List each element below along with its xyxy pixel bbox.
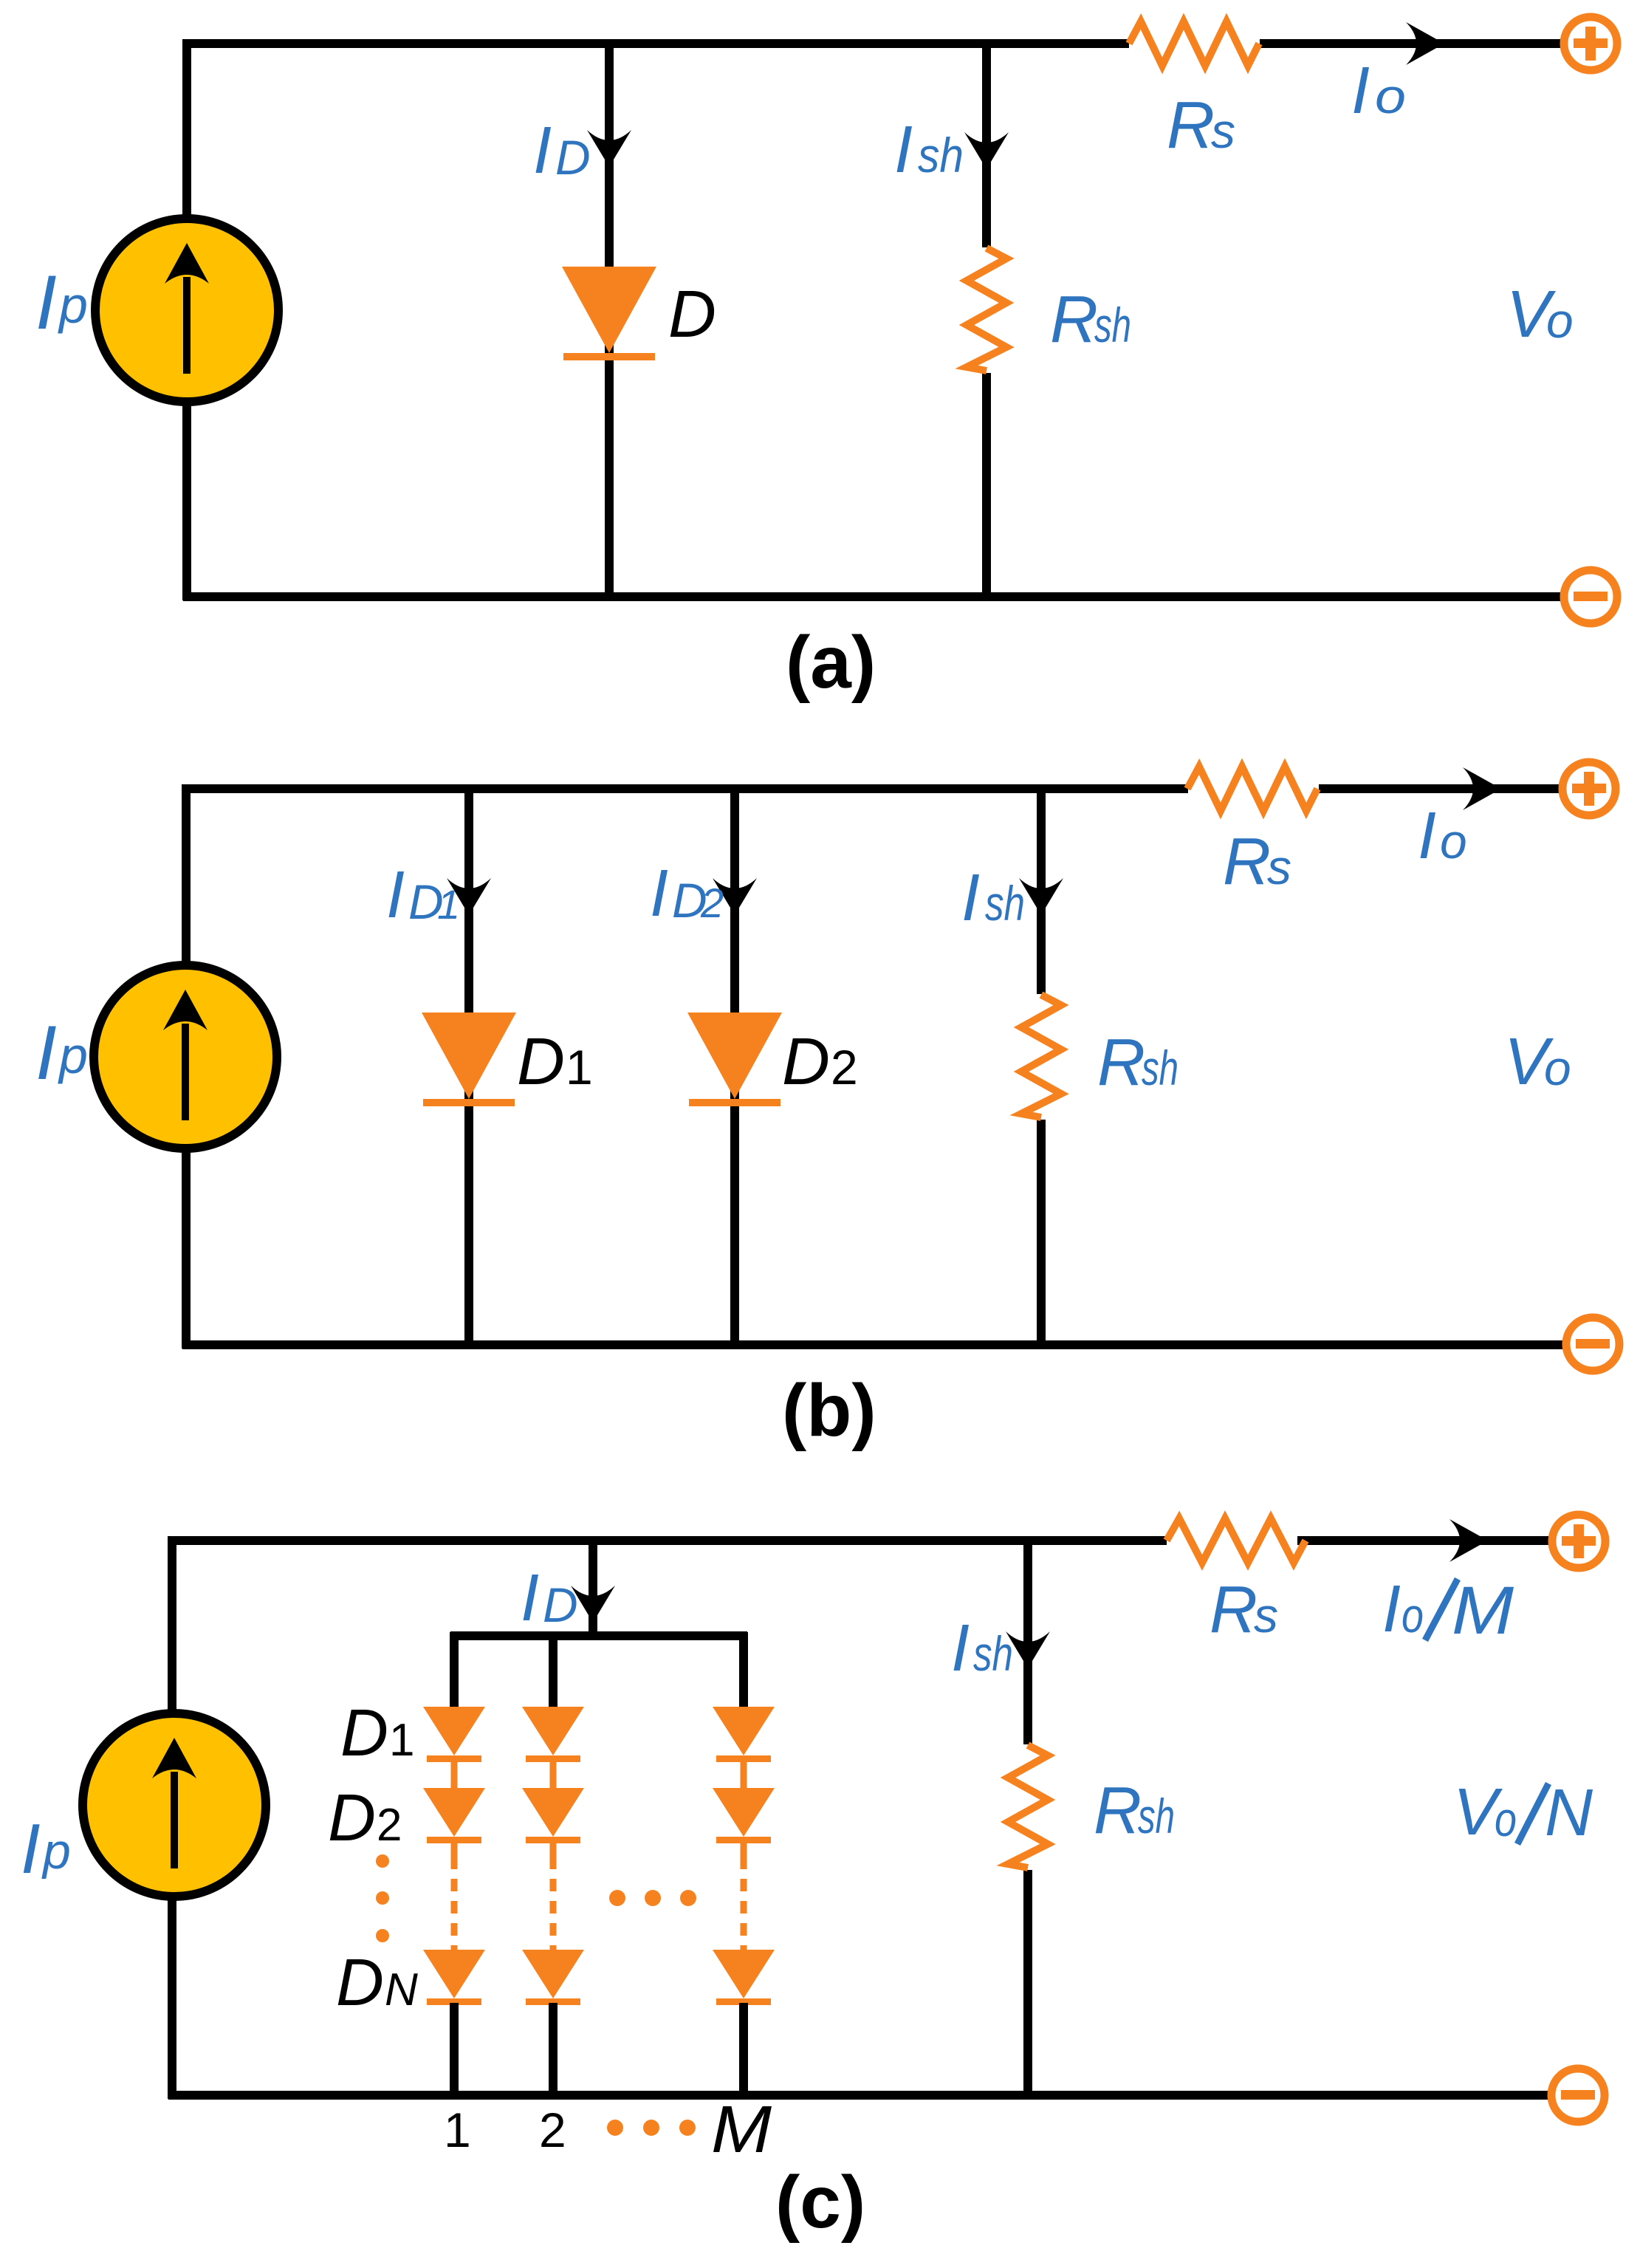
current source Ip (panel a) <box>95 219 278 402</box>
svg-text:1: 1 <box>437 881 460 928</box>
diode D2 (panel b) <box>687 1013 782 1099</box>
diode DN column 2 (panel c) <box>522 1950 584 1998</box>
svg-text:R: R <box>1167 89 1215 162</box>
wire: panel b left branch <box>182 784 191 1349</box>
wire: shunt branch bottom (panel b) <box>1037 1120 1046 1345</box>
svg-text:N: N <box>385 1964 418 2015</box>
svg-text:I: I <box>1418 799 1436 873</box>
svg-text:s: s <box>1211 103 1235 158</box>
svg-text:R: R <box>1050 283 1098 357</box>
svg-text:D: D <box>668 278 716 352</box>
diode DN column 1 (panel c) <box>423 1950 485 1998</box>
terminal + (panel c) <box>1552 1515 1605 1568</box>
wire: orange stub below D2 column 2 (panel c) <box>550 1840 557 1857</box>
terminal - (panel a) <box>1564 570 1617 623</box>
wire: ID feed from top rail (panel c) <box>589 1541 597 1636</box>
wire: bottom link column 1 (panel c) <box>450 2003 459 2099</box>
svg-text:(b): (b) <box>782 1369 876 1452</box>
svg-text:s: s <box>1267 840 1291 894</box>
svg-text:p: p <box>41 1823 71 1880</box>
wire: panel a top rail left segment <box>183 39 1129 48</box>
svg-text:D: D <box>328 1781 376 1855</box>
diode DN column M (panel c) <box>713 1950 775 1998</box>
current source Ip (panel c) <box>83 1713 266 1897</box>
arrowhead current Ish (panel c) <box>1006 1631 1050 1668</box>
middle ellipsis dots between columns (panel c) <box>609 1890 625 1906</box>
current source Ip (panel b) <box>94 965 277 1148</box>
diode D1 (panel b) <box>422 1013 516 1099</box>
svg-text:N: N <box>1545 1776 1593 1850</box>
diode D1 column 1 (panel c) <box>423 1707 485 1755</box>
svg-text:s: s <box>1254 1588 1278 1642</box>
wire: bottom link column M (panel c) <box>739 2003 748 2099</box>
svg-text:R: R <box>1097 1026 1145 1100</box>
wire: dashed series continuation column 2 (panel c) <box>550 1857 557 1950</box>
svg-text:D: D <box>517 1025 565 1099</box>
svg-text:I: I <box>21 1809 41 1888</box>
resistor Rsh (panel a) <box>967 248 1006 371</box>
arrowhead current Io (panel b) <box>1463 767 1501 810</box>
resistor Rs (panel a) <box>1129 21 1259 66</box>
svg-text:p: p <box>58 276 88 334</box>
svg-text:I: I <box>35 260 57 346</box>
wire: bus drop column 2 (panel c) <box>549 1632 557 1710</box>
svg-text:sh: sh <box>918 128 964 182</box>
diode D2 column 2 (panel c) <box>522 1788 584 1837</box>
resistor Rs (panel c) <box>1167 1518 1306 1563</box>
terminal + (panel a) <box>1564 17 1617 70</box>
wire: bus drop column M (panel c) <box>739 1632 748 1710</box>
svg-text:sh: sh <box>1142 1041 1178 1095</box>
svg-text:1: 1 <box>566 1040 593 1094</box>
svg-text:M: M <box>711 2093 772 2167</box>
wire: shunt branch top (panel a) <box>982 44 991 247</box>
svg-text:D: D <box>336 1946 384 2020</box>
svg-text:sh: sh <box>1138 1789 1175 1843</box>
svg-text:R: R <box>1094 1774 1142 1848</box>
svg-text:D: D <box>782 1025 830 1099</box>
wire: orange link D1-D2 column 1 (panel c) <box>451 1760 458 1790</box>
svg-text:R: R <box>1223 825 1271 899</box>
svg-text:I: I <box>1351 54 1370 128</box>
wire: panel c bottom rail <box>168 2091 1551 2100</box>
wire: orange link D1-D2 column 2 (panel c) <box>550 1760 557 1790</box>
svg-text:I: I <box>35 1010 57 1096</box>
wire: diode D2 branch (panel b) <box>730 789 739 1345</box>
svg-text:I: I <box>1382 1572 1401 1646</box>
svg-text:2: 2 <box>539 2103 566 2157</box>
svg-text:2: 2 <box>700 880 724 926</box>
svg-text:o: o <box>1495 1792 1517 1846</box>
arrowhead current Io/M (panel c) <box>1449 1519 1488 1562</box>
terminal + (panel b) <box>1562 762 1616 815</box>
svg-text:(c): (c) <box>775 2161 865 2244</box>
arrowhead current Ish (panel a) <box>964 132 1009 169</box>
svg-text:I: I <box>961 861 980 935</box>
svg-text:1: 1 <box>389 1715 414 1766</box>
svg-text:o: o <box>1544 1041 1571 1095</box>
arrowhead current ID1 (panel b) <box>447 878 491 915</box>
svg-text:M: M <box>1452 1573 1514 1648</box>
arrowhead current ID (panel c) <box>571 1586 615 1623</box>
wire: panel b bottom rail <box>182 1340 1566 1349</box>
wire: panel a top rail right segment <box>1260 39 1564 48</box>
wire: panel c top rail left segment <box>168 1536 1167 1545</box>
arrowhead current Ish (panel b) <box>1019 878 1063 915</box>
svg-text:I: I <box>521 1561 539 1635</box>
wire: orange link D1-D2 column M (panel c) <box>741 1760 747 1790</box>
wire: shunt branch top (panel b) <box>1037 789 1046 994</box>
wire: panel c top rail right segment <box>1297 1536 1552 1545</box>
svg-text:sh: sh <box>1094 298 1131 352</box>
diode D (panel a) <box>562 267 656 353</box>
wire: bus drop column 1 (panel c) <box>450 1632 459 1710</box>
wire: panel b top rail right segment <box>1319 784 1562 793</box>
svg-text:I: I <box>650 857 668 931</box>
svg-text:I: I <box>951 1611 970 1685</box>
svg-text:o: o <box>1440 814 1467 869</box>
wire: panel c left branch <box>168 1536 176 2099</box>
resistor Rsh (panel b) <box>1021 995 1061 1117</box>
svg-text:D: D <box>543 1577 578 1632</box>
wire: panel b top rail left segment <box>182 784 1188 793</box>
wire: panel a bottom rail <box>183 592 1564 601</box>
svg-text:I: I <box>533 114 552 188</box>
diode D1 column 2 (panel c) <box>522 1707 584 1755</box>
wire: dashed series continuation column M (panel c) <box>741 1857 747 1950</box>
svg-text:2: 2 <box>831 1040 858 1094</box>
svg-text:D: D <box>555 130 591 185</box>
vertical ellipsis dots (panel c) <box>376 1854 389 1868</box>
svg-text:I: I <box>386 858 405 932</box>
diode D1 column M (panel c) <box>713 1707 775 1755</box>
terminal - (panel b) <box>1566 1318 1619 1371</box>
svg-text:o: o <box>1375 69 1406 123</box>
bottom ellipsis dots (panel c) <box>607 2120 623 2136</box>
arrowhead current Io (panel a) <box>1406 22 1444 65</box>
wire: panel a left branch <box>182 39 191 600</box>
svg-text:2: 2 <box>377 1800 402 1851</box>
wire: dashed series continuation column 1 (panel c) <box>451 1857 458 1950</box>
wire: shunt branch top (panel c) <box>1023 1541 1032 1744</box>
diode D2 column M (panel c) <box>713 1788 775 1837</box>
svg-text:I: I <box>894 113 913 187</box>
svg-text:1: 1 <box>444 2103 471 2157</box>
terminal - (panel c) <box>1551 2069 1605 2122</box>
resistor Rs (panel b) <box>1187 767 1317 811</box>
svg-text:D: D <box>340 1696 388 1770</box>
svg-text:R: R <box>1210 1573 1258 1647</box>
wire: orange stub below D2 column 1 (panel c) <box>451 1840 458 1857</box>
svg-text:o: o <box>1401 1588 1424 1642</box>
svg-text:sh: sh <box>985 876 1025 931</box>
resistor Rsh (panel c) <box>1008 1745 1048 1868</box>
wire: orange stub below D2 column M (panel c) <box>741 1840 747 1857</box>
wire: diode D1 branch (panel b) <box>464 789 473 1345</box>
wire: bottom link column 2 (panel c) <box>549 2003 557 2099</box>
wire: diode D branch (panel a) <box>605 44 614 597</box>
svg-text:p: p <box>58 1027 88 1084</box>
wire: shunt branch bottom (panel a) <box>982 373 991 597</box>
arrowhead current ID (panel a) <box>587 130 631 167</box>
wire: diode bus horizontal (panel c) <box>450 1631 747 1640</box>
svg-text:(a): (a) <box>786 621 876 704</box>
diode D2 column 1 (panel c) <box>423 1788 485 1837</box>
arrowhead current ID2 (panel b) <box>713 878 757 915</box>
svg-text:sh: sh <box>973 1626 1013 1681</box>
svg-text:o: o <box>1546 293 1574 348</box>
wire: shunt branch bottom (panel c) <box>1023 1870 1032 2095</box>
